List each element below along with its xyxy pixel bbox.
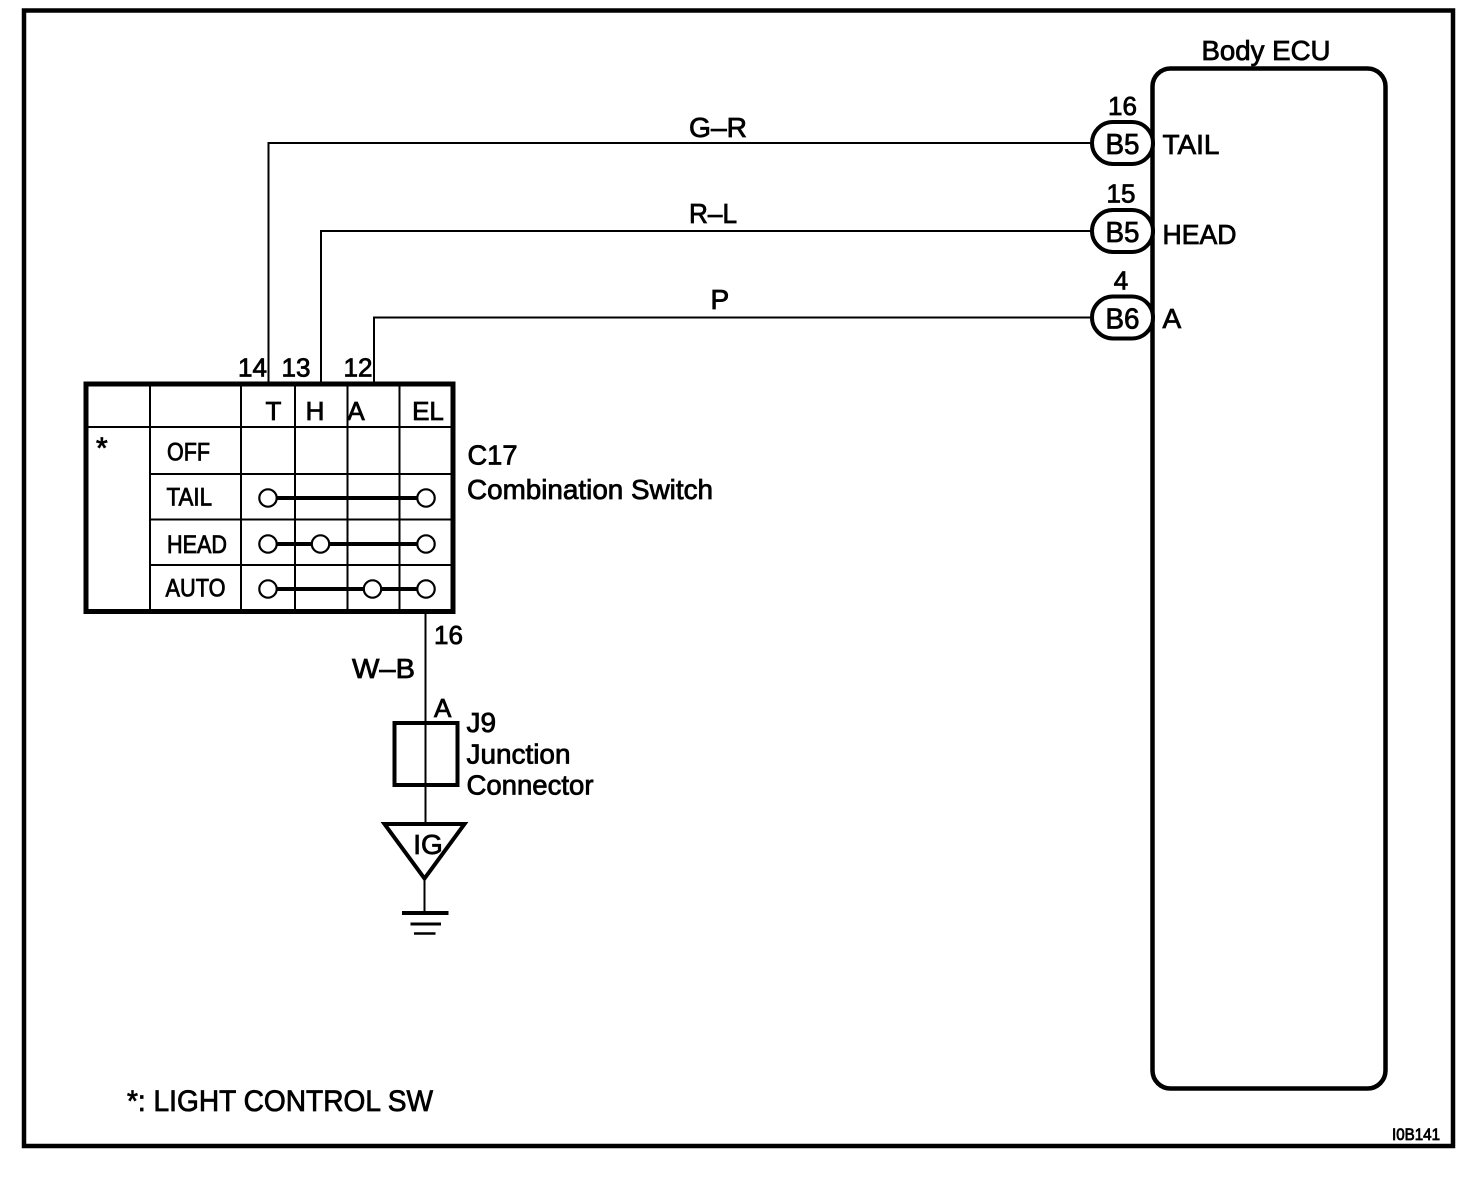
svg-text:B5: B5: [1106, 129, 1140, 161]
svg-text:R–L: R–L: [689, 198, 737, 229]
svg-text:Junction: Junction: [467, 739, 571, 770]
svg-text:4: 4: [1114, 266, 1128, 296]
svg-text:C17: C17: [468, 440, 518, 471]
svg-text:12: 12: [344, 353, 373, 383]
svg-text:A: A: [347, 396, 365, 426]
svg-text:Combination Switch: Combination Switch: [467, 474, 713, 505]
svg-text:I0B141: I0B141: [1392, 1125, 1440, 1144]
svg-text:16: 16: [434, 620, 463, 650]
svg-text:W–B: W–B: [352, 653, 415, 684]
svg-text:H: H: [306, 396, 325, 426]
svg-text:Connector: Connector: [467, 770, 594, 801]
svg-text:EL: EL: [412, 396, 444, 426]
svg-text:16: 16: [1108, 91, 1137, 121]
svg-text:A: A: [434, 693, 452, 723]
svg-text:OFF: OFF: [167, 439, 210, 467]
svg-text:G–R: G–R: [689, 112, 747, 143]
svg-text:HEAD: HEAD: [1163, 219, 1237, 250]
svg-text:13: 13: [282, 353, 311, 383]
svg-text:15: 15: [1107, 179, 1136, 209]
svg-text:B5: B5: [1106, 217, 1140, 249]
svg-text:TAIL: TAIL: [1163, 129, 1220, 160]
svg-text:IG: IG: [413, 829, 443, 860]
svg-text:T: T: [266, 396, 282, 426]
svg-text:HEAD: HEAD: [167, 531, 227, 559]
svg-text:J9: J9: [467, 707, 497, 738]
svg-text:Body ECU: Body ECU: [1202, 35, 1331, 66]
svg-text:P: P: [711, 284, 730, 315]
svg-text:TAIL: TAIL: [167, 484, 213, 512]
svg-text:*: *: [96, 432, 108, 465]
svg-text:AUTO: AUTO: [166, 575, 226, 603]
svg-text:A: A: [1163, 303, 1182, 334]
svg-text:B6: B6: [1106, 304, 1140, 336]
svg-text:14: 14: [238, 353, 267, 383]
svg-text:*: LIGHT CONTROL SW: *: LIGHT CONTROL SW: [127, 1085, 434, 1118]
